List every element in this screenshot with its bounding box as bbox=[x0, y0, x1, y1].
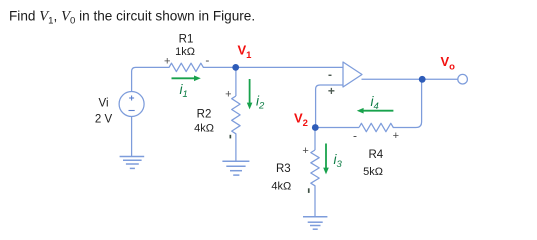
svg-text:R2: R2 bbox=[197, 109, 212, 121]
svg-text:Vo: Vo bbox=[441, 54, 456, 73]
svg-text:-: - bbox=[205, 53, 209, 67]
ground under source bbox=[120, 157, 145, 169]
ground under R3 bbox=[303, 217, 327, 230]
resistor R4 bbox=[359, 79, 422, 131]
wire: V1 down to R2 bbox=[235, 67, 237, 96]
ground under R2 bbox=[222, 161, 249, 175]
svg-text:+: + bbox=[302, 145, 308, 157]
svg-text:i1: i1 bbox=[180, 82, 188, 100]
svg-text:+: + bbox=[393, 130, 399, 142]
svg-text:4kΩ: 4kΩ bbox=[194, 123, 214, 135]
resistor R1 bbox=[166, 63, 236, 71]
svg-text:-: - bbox=[328, 67, 332, 81]
svg-text:i3: i3 bbox=[334, 152, 343, 170]
wire: V2 down to R3 bbox=[314, 128, 316, 151]
wire: source top to R1 bbox=[132, 67, 166, 91]
svg-text:R4: R4 bbox=[368, 149, 383, 161]
node V2 junction dot bbox=[312, 124, 319, 131]
svg-text:2 V: 2 V bbox=[95, 114, 113, 126]
svg-text:R1: R1 bbox=[179, 34, 194, 46]
svg-text:+: + bbox=[164, 55, 170, 67]
wire: V1 to op-amp minus input bbox=[236, 66, 343, 68]
resistor R3 bbox=[311, 150, 319, 217]
output terminal circle bbox=[458, 74, 468, 84]
svg-text:R3: R3 bbox=[276, 163, 291, 175]
resistor R2 bbox=[232, 96, 240, 161]
svg-text:i2: i2 bbox=[256, 94, 265, 112]
svg-text:5kΩ: 5kΩ bbox=[363, 166, 383, 178]
svg-text:Find V1, V0 in the circuit sho: Find V1, V0 in the circuit shown in Figu… bbox=[9, 9, 255, 27]
output node junction dot bbox=[419, 76, 426, 83]
current arrow i2 bbox=[247, 79, 253, 109]
wire: V2 to R4 bbox=[315, 127, 359, 129]
svg-text:i4: i4 bbox=[371, 94, 379, 112]
svg-text:V2: V2 bbox=[294, 111, 308, 130]
wire: op-amp output to terminal bbox=[362, 78, 458, 80]
current arrow i1 bbox=[172, 76, 201, 82]
svg-text:V1: V1 bbox=[238, 43, 253, 62]
current arrow i4 bbox=[357, 108, 394, 114]
node V1 junction dot bbox=[232, 64, 239, 71]
op-amp U1 bbox=[343, 62, 362, 87]
svg-text:1kΩ: 1kΩ bbox=[175, 46, 195, 58]
svg-text:+: + bbox=[328, 84, 335, 98]
svg-text:-: - bbox=[353, 128, 357, 142]
svg-text:4kΩ: 4kΩ bbox=[271, 181, 291, 193]
current arrow i3 bbox=[323, 144, 329, 175]
svg-text:+: + bbox=[225, 88, 231, 100]
voltage source Vi bbox=[119, 92, 144, 117]
svg-text:Vi: Vi bbox=[98, 98, 108, 110]
wire: source bottom to ground bbox=[131, 116, 133, 156]
wire: op-amp plus input down to V2 bbox=[316, 85, 343, 128]
